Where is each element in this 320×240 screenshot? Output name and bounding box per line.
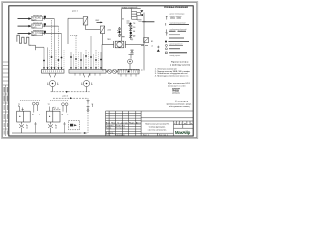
svg-text:Условные обозначения: Условные обозначения (164, 6, 189, 9)
svg-text:систем автоматиз.: систем автоматиз. (148, 130, 167, 132)
svg-text:шкаф управл.: шкаф управл. (170, 54, 182, 57)
svg-text:с1: с1 (151, 46, 153, 48)
svg-text:водопровод: водопровод (33, 30, 44, 32)
svg-text:Схема функцион.: Схема функцион. (149, 125, 166, 128)
svg-text:c250: c250 (107, 30, 111, 32)
svg-text:КЗ: КЗ (122, 19, 124, 21)
svg-text:Ду25: Ду25 (32, 27, 36, 29)
svg-text:обслуживает помещ.: обслуживает помещ. (169, 106, 190, 108)
svg-text:25: 25 (55, 127, 57, 129)
svg-text:1: 1 (178, 123, 179, 125)
svg-text:теплонос.: теплонос. (139, 21, 148, 23)
svg-text:1: 1 (181, 123, 182, 125)
svg-text:4. Прокладка кабельных трасс в: 4. Прокладка кабельных трасс в к. (155, 76, 189, 78)
svg-text:трубопровод прямой: трубопровод прямой (170, 21, 186, 24)
svg-text:25: 25 (26, 127, 28, 129)
svg-text:Ду20: Ду20 (32, 34, 36, 36)
svg-text:В1: В1 (151, 41, 153, 43)
svg-text:Листов 1: Листов 1 (159, 135, 168, 137)
svg-text:Подп. Дата: Подп. Дата (129, 122, 141, 124)
svg-text:Пров.: Пров. (106, 128, 112, 130)
svg-text:автоматы: автоматы (172, 92, 181, 94)
svg-text:Петров: Петров (116, 128, 125, 130)
svg-text:узел 2: узел 2 (63, 96, 68, 98)
svg-text:вс: вс (191, 123, 193, 125)
svg-text:гв: гв (32, 114, 34, 116)
svg-text:Лист 1: Лист 1 (143, 135, 149, 137)
svg-text:Т2: Т2 (48, 104, 50, 106)
svg-text:Утв.: Утв. (106, 135, 111, 137)
svg-text:Ду25: Ду25 (32, 19, 36, 21)
svg-text:Т1: Т1 (18, 104, 20, 106)
svg-text:наружн. воздуха: наружн. воздуха (170, 16, 182, 18)
svg-text:котельная: котельная (33, 15, 42, 17)
svg-text:котельная: котельная (33, 22, 42, 24)
svg-text:МакАйр: МакАйр (175, 130, 191, 135)
svg-text:Д1: Д1 (131, 39, 133, 41)
svg-text:трубопровод обратный: трубопровод обратный (170, 28, 187, 31)
svg-text:ПВ1: ПВ1 (107, 39, 111, 41)
svg-text:Сидоров: Сидоров (116, 135, 125, 137)
svg-text:узел 1: узел 1 (72, 10, 79, 12)
svg-text:гв: гв (62, 114, 64, 116)
svg-text:др: др (184, 123, 186, 125)
svg-text:датчик давления: датчик давления (170, 43, 183, 45)
svg-text:Изм Лист № докум.: Изм Лист № докум. (106, 121, 129, 124)
svg-text:Приточная установка П1: Приточная установка П1 (145, 123, 170, 125)
svg-text:к монтажу систем: к монтажу систем (170, 64, 190, 66)
